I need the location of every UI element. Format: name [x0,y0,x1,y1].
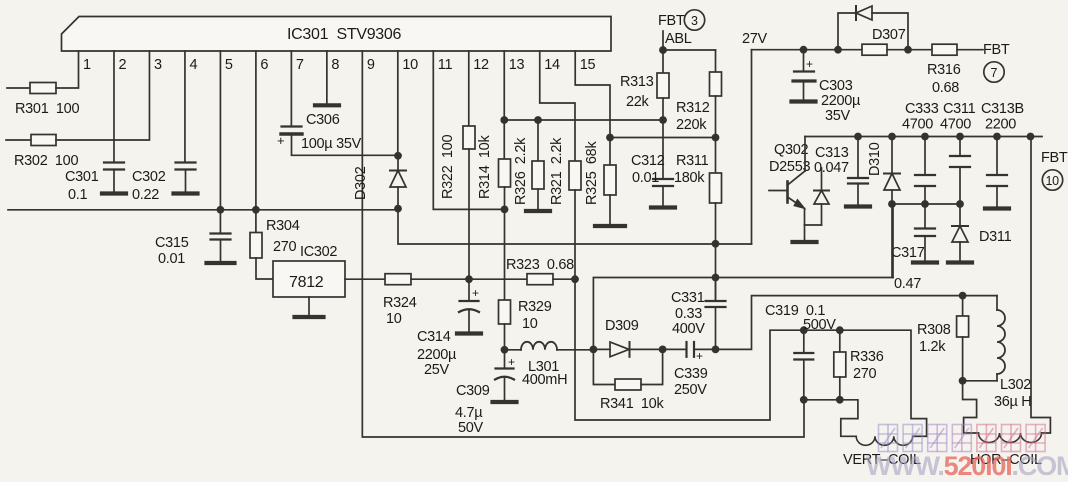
svg-text:15: 15 [580,57,596,73]
svg-text:5: 5 [225,57,233,73]
svg-text:400mH: 400mH [522,372,567,388]
svg-text:R302 100: R302 100 [14,153,78,169]
svg-text:0.047: 0.047 [814,160,849,176]
wire riser to y204 line [892,204,894,278]
wire R316 to FBT7 [957,49,983,51]
svg-text:D309: D309 [605,318,639,334]
svg-text:Q302: Q302 [774,142,809,158]
ground C317 [913,260,937,264]
resistor R311 [710,173,722,203]
node L301 left junction [501,346,509,354]
node ABL junction [659,46,667,54]
svg-text:C313: C313 [815,145,849,161]
node D307 left junction [834,46,842,54]
resistor R302 [31,135,56,146]
wire to R326 [537,120,539,161]
node D307 right junction [904,46,912,54]
wire R301 left lead [7,87,30,89]
ground C302 [174,191,198,195]
svg-text:9: 9 [367,57,375,73]
resistor R308 [957,316,969,337]
svg-text:C333: C333 [905,101,939,117]
resistor R304 [250,233,262,259]
svg-text:C303: C303 [819,78,853,94]
svg-text:1: 1 [83,57,91,73]
wire C313 lower [857,184,859,205]
wire R312 to R311 [715,96,717,173]
resistor R324 [385,274,411,285]
wire C319 lower [803,360,805,400]
node HOR left junction [959,377,967,385]
wire collector FBT line [805,136,1042,138]
svg-text:22k: 22k [626,94,650,110]
ground C312 [651,205,675,209]
regulator IC302 7812 body [273,261,345,297]
svg-text:1.2k: 1.2k [919,339,946,355]
capacitor C317 [915,229,935,237]
wire R321 vertical deflection path [575,190,927,436]
svg-text:50V: 50V [458,420,484,436]
svg-text:FBT: FBT [658,13,685,29]
wire R341 right [641,349,663,384]
wire to R313 [662,50,664,73]
wire R308 lower [962,337,964,381]
svg-text:R308: R308 [917,322,951,338]
wire pin 9 bottom bus [362,51,804,437]
svg-text:R325 68k: R325 68k [584,141,600,205]
resistor R312 [710,72,722,96]
wire R302 to pin 3 [56,51,149,140]
wire to C313 [857,137,859,179]
svg-text:C311: C311 [943,101,976,117]
ground R325 [595,224,625,228]
node C333 top [921,133,929,141]
wire C311 lower [959,167,961,204]
ground C314 [457,331,481,335]
svg-text:D311: D311 [979,229,1012,245]
inductor L302 [997,310,1005,374]
svg-text:C313B: C313B [981,101,1024,117]
capacitor C313 [848,178,868,184]
resistor R326 [532,161,544,189]
wire to C309 [504,350,506,369]
svg-text:C301: C301 [65,169,99,185]
node C313 top [854,133,862,141]
resistor R341 [615,379,641,390]
svg-text:0.1: 0.1 [68,187,87,203]
wire R324 to R323 [411,278,527,280]
wire C301 lower [113,170,115,193]
capacitor C312 [653,179,673,186]
wire IC302 ground lead [308,297,310,315]
node D311 top [956,200,964,208]
wire R313 bottom [662,98,664,120]
ground pin 8 [315,103,339,107]
ground C313B [985,206,1009,210]
wire pin 2 to C301 [113,51,115,163]
svg-text:2: 2 [118,57,126,73]
svg-text:C317: C317 [891,245,925,261]
wire D310 anode [891,190,893,204]
ground IC302 [295,315,324,319]
svg-text:0.22: 0.22 [132,187,159,203]
node C303 junction [800,46,808,54]
diode D302 [390,156,406,209]
svg-text:R311: R311 [676,153,709,169]
wire C331 bottom lead [715,307,717,349]
svg-text:4.7µ: 4.7µ [455,405,483,421]
svg-text:10: 10 [522,316,538,332]
node C331 top junction [712,274,720,282]
connector HOR-COIL outline [963,381,979,433]
svg-text:C312: C312 [631,153,665,169]
ground R326 [526,209,550,213]
svg-text:C306: C306 [306,112,340,128]
node R312 bottom junction [712,134,720,142]
wire emitter to damper [805,224,822,226]
svg-text:+: + [508,355,515,369]
node R314 bottom junction [501,206,509,214]
wire C309 lower [504,377,506,400]
wire to C317 [924,204,926,229]
svg-text:R314 10k: R314 10k [477,135,493,199]
wire to R336 [839,330,841,352]
node C314 top junction [465,275,473,283]
node C313B top [993,133,1001,141]
wire C333 lower [924,186,926,204]
wire C306 to D302 top [292,134,399,155]
resistor R314 [499,159,511,187]
wire C331 top lead [715,278,717,302]
node R336 top junction [836,326,844,334]
resistor D307 parallel [862,44,887,55]
capacitor C315 [211,234,231,240]
svg-text:IC302: IC302 [300,244,337,260]
svg-text:2200: 2200 [985,117,1016,133]
svg-text:4: 4 [189,57,197,73]
svg-text:0.33: 0.33 [675,306,702,322]
node FBT 3 circle [684,10,704,30]
svg-text:R322 100: R322 100 [440,135,456,199]
wire C319-R336 bottom [804,399,840,401]
svg-text:270: 270 [273,239,297,255]
wire L302 lower [996,374,998,381]
svg-text:R304: R304 [266,218,300,234]
wire R329 to L301 node [504,324,506,350]
wire to D310 [891,137,893,174]
svg-text:25V: 25V [424,362,450,378]
wire horizontal deflection line [716,296,998,350]
capacitor C313B [987,175,1007,186]
resistor R301 [30,83,56,94]
svg-text:IC301 STV9306: IC301 STV9306 [287,26,401,43]
wire C303 lower [803,81,805,100]
diode D309 [610,342,630,357]
svg-text:6: 6 [260,57,268,73]
wire C313B lower [996,186,998,207]
capacitor C311 [950,156,970,167]
svg-text:R321 2.2k: R321 2.2k [549,137,565,205]
wire C317 lower [924,236,926,261]
wire C314 lower [468,310,470,332]
ground Q302 emitter [793,240,817,244]
wire pin 8 to ground [326,51,328,104]
resistor R321 [569,161,581,190]
svg-text:35V: 35V [825,108,851,124]
node R341 right junction [659,346,667,354]
node FBT 7 circle [984,62,1004,82]
wire pin 7 to C306 [290,51,292,127]
wire to C313B [996,137,998,176]
wire R326 to ground [537,189,539,209]
wire C302 lower [185,170,187,193]
svg-text:+: + [696,349,703,363]
node D310 top [888,133,896,141]
svg-text:0.68: 0.68 [932,80,959,96]
capacitor C302 [176,163,196,170]
wire D302 anode to 27V riser [398,209,752,244]
wire pin 6 through bus to R304 [255,51,257,233]
resistor R336 [834,352,846,377]
ground D311 [948,260,972,264]
node C319 top junction [800,326,808,334]
op-amp IC301 STV9306 body [62,17,612,52]
capacitor C339 electrolytic [687,342,695,357]
svg-text:R312: R312 [676,100,710,116]
svg-text:C339: C339 [674,366,708,382]
ground C313 [846,204,870,208]
wire R322 to C314 node [468,149,470,279]
svg-text:+: + [806,57,813,71]
wire to C311 [959,137,961,157]
capacitor C331 [706,301,726,307]
svg-text:R326 2.2k: R326 2.2k [513,137,529,205]
node C331 bottom junction [712,346,720,354]
wire to C303 [803,50,805,72]
svg-text:ABL: ABL [665,31,692,47]
svg-text:2200µ: 2200µ [417,347,457,363]
wire 27V rail left part [752,49,863,51]
svg-text:27V: 27V [742,31,768,47]
wire to L301 [505,349,522,351]
resistor R316 [932,44,957,55]
svg-text:11: 11 [438,57,453,73]
svg-text:36µ H: 36µ H [994,394,1031,410]
capacitor C333 [915,175,935,186]
wire pin 4 to C302 [184,51,186,163]
ground C303 [792,99,816,103]
node R323 right junction [571,275,579,283]
node C311 top [956,133,964,141]
node pin6-bus junction [252,206,260,214]
svg-text:D310: D310 [867,142,883,176]
wire R313 bottom to C312 [662,120,664,179]
wire to C319 [803,330,805,353]
wire R304 to IC302 [256,258,273,279]
wire pin 13 to R314 [503,51,505,159]
svg-text:7812: 7812 [289,274,324,291]
svg-text:R313: R313 [620,74,654,90]
svg-text:L302: L302 [1000,377,1031,393]
wire R301 to pin 1 [56,51,79,88]
svg-text:C315: C315 [155,235,189,251]
resistor R325 [604,165,616,195]
svg-text:C309: C309 [456,383,490,399]
node R336 bottom junction [836,396,844,404]
node pin15 line junction [606,134,614,142]
wire C312 lower [662,186,664,206]
node D302 anode junction [394,205,402,213]
wire to C333 [924,137,926,176]
svg-text:R329: R329 [518,299,552,315]
ground C309 [493,400,517,404]
resistor R329 [499,300,511,324]
svg-text:R301 100: R301 100 [15,101,79,117]
node D302 cathode junction [394,152,402,160]
connector VERT-COIL outline [840,400,858,437]
svg-text:0.01: 0.01 [158,251,185,267]
svg-text:7: 7 [296,57,304,73]
svg-text:10: 10 [1046,174,1060,188]
svg-text:14: 14 [544,57,560,73]
svg-text:FBT: FBT [1041,150,1068,166]
ground C315 [207,261,235,265]
svg-text:C331: C331 [671,290,705,306]
svg-text:12: 12 [473,57,489,73]
wire pin 14 to R321 [540,51,575,161]
wire pin15 net line [610,137,716,139]
svg-text:220k: 220k [676,117,707,133]
svg-text:D302: D302 [353,166,369,200]
svg-text:3: 3 [691,14,698,28]
wire pin 15 to R325 [575,51,610,165]
svg-text:0.01: 0.01 [632,170,659,186]
wire R308 to L302 bottom [963,380,997,382]
svg-text:2200µ: 2200µ [821,93,861,109]
svg-text:13: 13 [509,57,525,73]
wire Q302 emitter [804,209,806,226]
node R308 top junction [959,292,967,300]
wire R311 bottom to C331 [715,203,717,301]
svg-text:8: 8 [331,57,339,73]
svg-text:400V: 400V [672,321,705,337]
wire pin 11 to R314 bottom [433,51,504,209]
node C317 top [921,200,929,208]
wire L301 to D309 [557,349,593,351]
node pin5-bus junction [217,206,225,214]
wire D310 to C331 line [891,204,893,278]
wire ground bus pins 5-6 to D302 [8,209,398,211]
wire to L302 [996,296,998,310]
wire Q302 collector riser [804,137,806,172]
wire ABL to R312 top [663,49,716,51]
svg-text:4700: 4700 [902,117,933,133]
wire C339 to C331 node [694,348,716,350]
node R311 27V junction [712,240,720,248]
svg-text:3: 3 [154,57,162,73]
svg-text:R341 10k: R341 10k [600,396,664,412]
svg-text:180k: 180k [674,170,705,186]
wire to D311 [959,204,961,226]
svg-text:500V: 500V [803,317,836,333]
node FBT 10 circle [1042,170,1062,190]
diode D311 [952,226,968,242]
wire C315 lower [220,240,222,262]
wire D309 to C339 [630,348,687,350]
svg-text:R323 0.68: R323 0.68 [506,257,574,273]
wire R341 left [593,349,615,384]
resistor R323 [527,274,553,285]
wire D311 lower [959,242,961,261]
node pin13 y120 junction [500,116,508,124]
wire to D309 [593,348,610,350]
node R313 bottom junction [659,116,667,124]
wire R323 right [553,278,575,280]
node D309 anode junction [590,346,598,354]
capacitor C309 electrolytic [495,369,514,380]
svg-text:R316: R316 [927,62,961,78]
svg-text:7: 7 [991,66,998,80]
svg-text:FBT: FBT [983,42,1010,58]
svg-text:C302: C302 [132,169,166,185]
wire pin13 to R313 bottom line [505,119,666,121]
wire R302 left lead [6,139,31,141]
inductor L301 [521,342,557,350]
wire pin 10 to D302 [397,51,399,156]
wire to C314 [468,279,470,301]
ground C301 [102,191,126,195]
node R326 top junction [534,116,542,124]
wire R314 to R329 [504,187,506,300]
svg-text:10: 10 [402,57,418,73]
svg-text:C314: C314 [417,329,451,345]
svg-text:0.47: 0.47 [894,276,921,292]
capacitor C301 [104,163,124,170]
wire ABL stub [662,31,664,50]
wire to R316 [887,49,932,51]
wire C331 top line [593,278,893,350]
diode D307 [838,6,908,50]
svg-text:R336: R336 [850,349,884,365]
capacitor C303 electrolytic [793,72,815,82]
node C319 bottom junction [800,396,808,404]
svg-text:+: + [472,286,479,300]
node D310 anode junction [888,200,896,208]
svg-text:+: + [277,133,284,148]
svg-text:100µ 35V: 100µ 35V [301,136,362,152]
diode damper Q302 [814,168,829,225]
capacitor C314 electrolytic [459,301,479,312]
resistor R322 [463,126,475,149]
svg-text:10: 10 [386,311,402,327]
svg-text:4700: 4700 [940,117,971,133]
capacitor C319 [794,353,813,360]
diode D310 [884,174,900,191]
wire R325 to ground [609,195,611,224]
svg-text:250V: 250V [674,382,707,398]
wire y204 line [892,203,960,205]
svg-text:D307: D307 [872,27,906,43]
wire IC302 out to R324 [345,278,385,280]
svg-text:270: 270 [853,366,877,382]
node HOR column top [1027,133,1035,141]
wire 27V riser [751,50,753,244]
resistor R313 [657,73,669,98]
capacitor C306 electrolytic [281,127,302,135]
wire emitter to ground [804,225,806,240]
wire to R308 [962,296,964,316]
wire pin 5 through bus to C315 [219,51,221,233]
